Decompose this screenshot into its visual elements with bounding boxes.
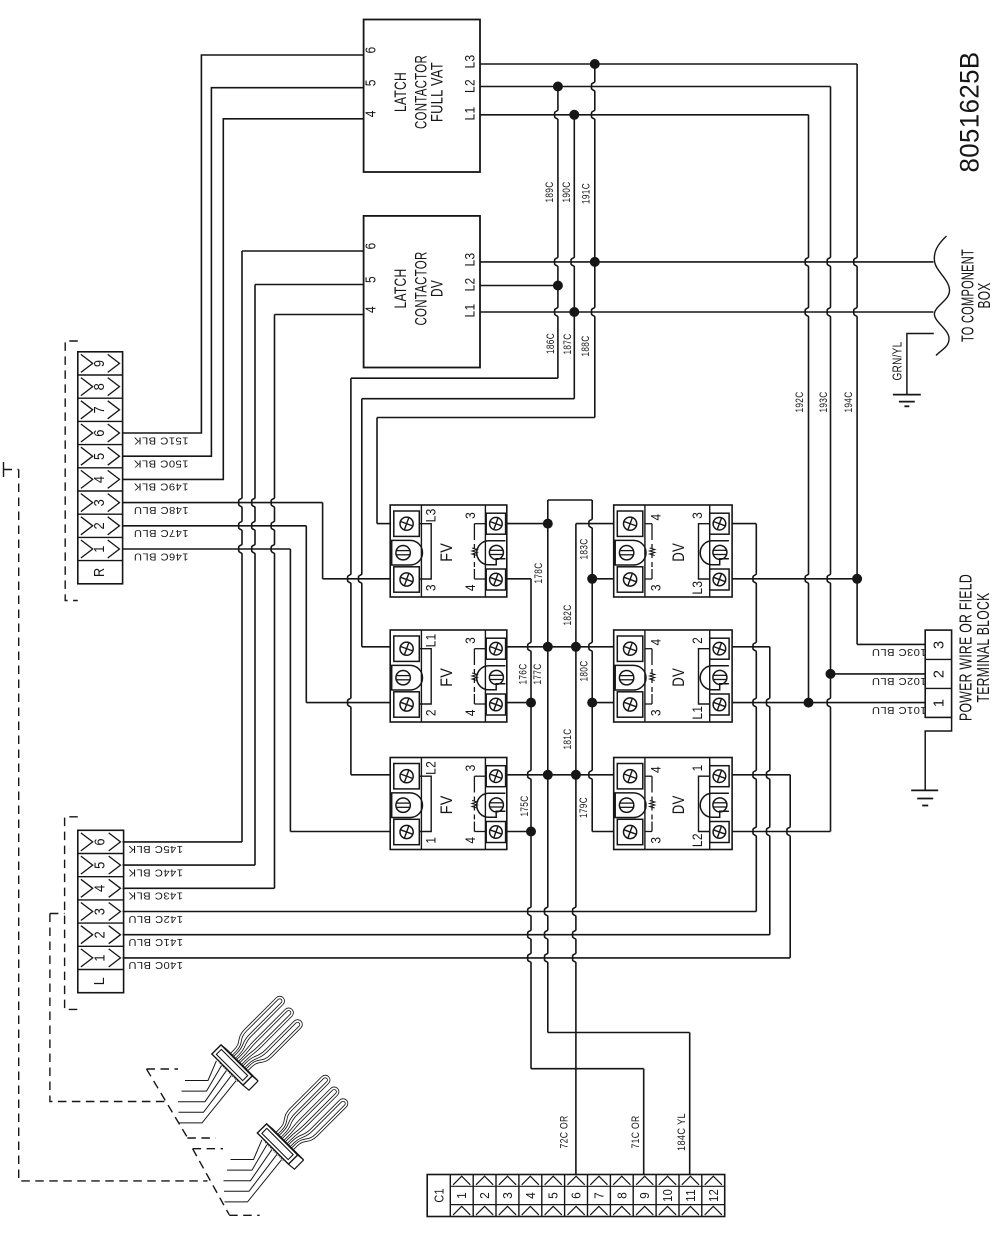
latch contactor FULL VAT K1 <box>364 20 481 173</box>
wire 144C BLK: L-5 to DV pin 5 <box>255 284 364 286</box>
wire FV2-4 row <box>507 702 531 704</box>
svg-text:3: 3 <box>463 764 478 771</box>
wire 183C/180C/179C: DV 3-terminal chain <box>589 500 592 832</box>
svg-text:TERMINAL BLOCK: TERMINAL BLOCK <box>973 593 993 703</box>
svg-text:4: 4 <box>92 476 108 484</box>
svg-text:8: 8 <box>92 383 108 391</box>
svg-text:2: 2 <box>477 1192 492 1199</box>
wire 150C BLK: R-5 to FULL VAT pin 5 <box>123 88 364 457</box>
svg-text:6: 6 <box>364 47 380 54</box>
svg-text:4: 4 <box>364 110 380 117</box>
ground at power terminal block <box>925 717 951 790</box>
wire 189C/186C: FULL VAT L2 - DV L2 - wrap to FV3 L2 <box>555 87 558 379</box>
svg-text:187C: 187C <box>562 334 574 355</box>
wire L1 bus top <box>480 114 809 116</box>
svg-text:4: 4 <box>463 709 478 716</box>
wire 191C/188C: FULL VAT L3 - DV L3 - wrap to FV1 L3 <box>592 64 595 418</box>
svg-text:9: 9 <box>637 1192 652 1199</box>
svg-text:176C: 176C <box>518 664 530 685</box>
wire 194C: L3 top elbow down to 103C <box>854 64 857 644</box>
svg-text:L3: L3 <box>424 508 439 522</box>
svg-text:L3: L3 <box>462 253 478 267</box>
svg-text:8: 8 <box>614 1192 629 1199</box>
svg-text:71C OR: 71C OR <box>630 1116 642 1149</box>
svg-text:GRN/YL: GRN/YL <box>890 342 904 381</box>
wire 102C BLU <box>831 673 926 675</box>
svg-text:194C: 194C <box>843 392 855 413</box>
wire 151C BLK: R-6 to FULL VAT pin 6 <box>123 55 364 433</box>
heating element HTR2 (R vat) <box>256 1070 357 1171</box>
svg-text:3: 3 <box>93 908 109 916</box>
wire 143C BLK: L-4 to DV pin 4 <box>275 314 364 316</box>
svg-text:183C: 183C <box>579 539 591 560</box>
svg-text:188C: 188C <box>580 336 592 357</box>
svg-text:3: 3 <box>930 641 947 650</box>
svg-text:178C: 178C <box>533 563 545 584</box>
top link FV1-3 to DV1-3 <box>548 499 592 501</box>
svg-text:DV: DV <box>670 668 688 687</box>
svg-text:4: 4 <box>93 885 109 893</box>
wire FV3-4 row <box>507 831 531 833</box>
svg-text:3: 3 <box>463 637 478 644</box>
svg-text:5: 5 <box>92 452 108 460</box>
wire 192C: L1 top elbow down to 101C <box>805 115 808 703</box>
wire FV3-3 row <box>507 774 576 776</box>
wire L3 bus top: FULL VAT L3 to right elbow <box>480 63 857 65</box>
svg-text:101C BLU: 101C BLU <box>872 704 927 716</box>
svg-text:2: 2 <box>424 709 439 716</box>
svg-text:145C BLK: 145C BLK <box>128 843 183 855</box>
svg-text:L1: L1 <box>462 107 478 121</box>
wire L2 bus top <box>480 86 831 88</box>
svg-text:2: 2 <box>690 637 705 644</box>
svg-text:BOX: BOX <box>974 283 994 309</box>
svg-text:9: 9 <box>92 360 108 368</box>
svg-text:189C: 189C <box>544 182 556 203</box>
wire 182C/181C/72C OR: DV1-4 chain down to C1-6 <box>576 523 614 525</box>
wire 146C BLU: R-1 to FV3-1 <box>123 548 291 550</box>
svg-text:3: 3 <box>690 512 705 519</box>
svg-text:L2: L2 <box>462 278 478 292</box>
svg-text:L: L <box>92 977 108 986</box>
svg-text:147C BLU: 147C BLU <box>134 527 189 539</box>
dashed enclosure around L block <box>65 817 78 1010</box>
wire DV2-4 feed <box>576 646 614 648</box>
svg-text:141C BLU: 141C BLU <box>128 936 183 948</box>
svg-text:DV: DV <box>670 543 688 562</box>
svg-text:4: 4 <box>463 837 478 844</box>
svg-text:191C: 191C <box>581 183 593 204</box>
svg-text:175C: 175C <box>519 796 531 817</box>
svg-text:179C: 179C <box>578 797 590 818</box>
svg-text:10: 10 <box>660 1189 675 1202</box>
svg-text:12: 12 <box>706 1189 721 1202</box>
dashed enclosure around R block <box>65 341 78 601</box>
wire DV L3 row to component box <box>480 261 934 263</box>
svg-text:1: 1 <box>424 837 439 844</box>
svg-text:4: 4 <box>523 1192 538 1199</box>
svg-text:190C: 190C <box>561 182 573 203</box>
svg-text:6: 6 <box>92 429 108 437</box>
svg-text:182C: 182C <box>562 605 574 626</box>
svg-text:3: 3 <box>92 499 108 507</box>
svg-text:3: 3 <box>649 709 664 716</box>
terminal strip C1 <box>427 1175 725 1217</box>
svg-text:7: 7 <box>92 406 108 414</box>
svg-text:L2: L2 <box>462 79 478 93</box>
wire DV L2 row <box>480 285 558 287</box>
dashed cable run to R vat probes <box>3 462 5 477</box>
wire DV L1 row to component box <box>480 311 934 313</box>
dashed cable run to L vat probes <box>50 913 65 915</box>
svg-text:FV: FV <box>438 795 456 814</box>
svg-text:L3: L3 <box>690 581 705 595</box>
svg-text:6: 6 <box>93 838 109 846</box>
dashed vat wall at heater 1 <box>147 1068 179 1070</box>
svg-text:3: 3 <box>463 512 478 519</box>
wire 178C/177C/184C YL: FV 3-terminal chain down to C1-11 <box>545 500 548 1033</box>
wire DV3-1 drop to heater row 140C <box>732 774 790 776</box>
wire 176C/175C/71C OR: FV 4-terminal chain down to C1-9 <box>528 579 531 1069</box>
wire 149C BLK: R-4 to FULL VAT pin 4 <box>123 119 364 480</box>
svg-text:4: 4 <box>649 766 664 773</box>
svg-text:4: 4 <box>463 584 478 591</box>
svg-text:5: 5 <box>364 276 380 283</box>
wire 101C BLU: DV2 L1 to terminal 1 <box>732 702 925 704</box>
latch contactor DV K2 <box>364 216 481 368</box>
solid-state relay DV3 <box>614 758 732 850</box>
svg-text:4: 4 <box>649 638 664 645</box>
wire 145C BLK: L-6 to DV pin 6 <box>242 250 364 252</box>
svg-text:1: 1 <box>92 545 108 553</box>
svg-text:184C YL: 184C YL <box>676 1113 688 1151</box>
solid-state relay DV2 <box>614 630 732 722</box>
svg-text:150C BLK: 150C BLK <box>134 458 189 470</box>
svg-text:5: 5 <box>93 861 109 869</box>
svg-text:1: 1 <box>930 699 947 708</box>
solid-state relay FV1 <box>390 505 507 597</box>
terminal block L (left vat) <box>78 830 124 992</box>
svg-text:149C BLK: 149C BLK <box>134 481 189 493</box>
svg-text:C1: C1 <box>431 1188 446 1203</box>
svg-text:L2: L2 <box>690 833 705 847</box>
svg-text:146C BLU: 146C BLU <box>134 550 189 562</box>
svg-text:LATCH: LATCH <box>391 72 410 112</box>
svg-text:L1: L1 <box>424 633 439 647</box>
svg-text:186C: 186C <box>545 333 557 354</box>
svg-text:2: 2 <box>930 670 947 679</box>
svg-text:FV: FV <box>438 668 456 687</box>
svg-text:FULL VAT: FULL VAT <box>428 62 447 122</box>
dashed vat wall at heater 2 <box>193 1148 223 1150</box>
wire 148C BLU: R-3 to FV1-3 <box>123 502 323 504</box>
svg-text:151C BLK: 151C BLK <box>134 434 189 446</box>
wire DV1 L3 row to 194C junction <box>732 578 857 580</box>
svg-text:4: 4 <box>364 306 380 313</box>
svg-text:3: 3 <box>424 584 439 591</box>
solid-state relay DV1 <box>614 505 732 597</box>
svg-text:180C: 180C <box>579 661 591 682</box>
svg-text:3: 3 <box>500 1192 515 1199</box>
wire 147C BLU: R-2 to FV2-2 <box>123 525 307 527</box>
svg-text:1: 1 <box>690 764 705 771</box>
svg-text:L1: L1 <box>690 706 705 720</box>
svg-text:1: 1 <box>93 954 109 962</box>
svg-text:5: 5 <box>546 1192 561 1199</box>
component box break line <box>934 236 949 356</box>
wire DV3-4 feed <box>576 774 614 776</box>
svg-text:177C: 177C <box>532 664 544 685</box>
svg-text:R: R <box>92 567 108 577</box>
svg-text:L1: L1 <box>462 304 478 318</box>
svg-text:4: 4 <box>649 513 664 520</box>
svg-text:181C: 181C <box>562 729 574 750</box>
solid-state relay FV3 <box>390 758 507 850</box>
svg-text:102C BLU: 102C BLU <box>872 675 927 687</box>
svg-text:3: 3 <box>649 837 664 844</box>
svg-text:103C BLU: 103C BLU <box>872 646 927 658</box>
svg-text:144C BLK: 144C BLK <box>128 866 183 878</box>
ground GRN/YL <box>893 394 921 396</box>
svg-text:3: 3 <box>649 584 664 591</box>
wire DV3 L2 row to 193C <box>732 831 830 833</box>
terminal block R (right vat) <box>78 352 123 584</box>
solid-state relay FV2 <box>390 630 507 722</box>
wire DV2-2 drop to heater row 141C <box>732 646 770 648</box>
power wire or field terminal block <box>925 630 951 717</box>
svg-text:72C OR: 72C OR <box>559 1116 571 1149</box>
svg-text:143C BLK: 143C BLK <box>128 890 183 902</box>
svg-text:LATCH: LATCH <box>391 269 410 309</box>
wire 190C/187C: FULL VAT L1 - DV L1 - wrap to FV2 L1 <box>571 115 574 399</box>
svg-text:142C BLU: 142C BLU <box>128 913 183 925</box>
svg-text:1: 1 <box>454 1192 469 1199</box>
svg-text:5: 5 <box>364 79 380 86</box>
wire GRN/YL ground lead <box>907 334 934 395</box>
svg-text:6: 6 <box>364 243 380 250</box>
svg-text:DV: DV <box>428 280 447 297</box>
wire DV1-3 drop to heater row 142C <box>732 523 756 525</box>
wire 103C BLU <box>857 643 925 645</box>
svg-text:FV: FV <box>438 543 456 562</box>
svg-text:DV: DV <box>670 795 688 814</box>
svg-text:192C: 192C <box>794 392 806 413</box>
svg-text:7: 7 <box>591 1192 606 1199</box>
svg-text:6: 6 <box>569 1192 584 1199</box>
svg-text:11: 11 <box>683 1189 698 1202</box>
wire FV2-3 row <box>507 646 576 648</box>
svg-text:148C BLU: 148C BLU <box>134 504 189 516</box>
svg-text:L3: L3 <box>462 55 478 69</box>
svg-text:8051625B: 8051625B <box>955 52 985 173</box>
svg-text:193C: 193C <box>818 392 830 413</box>
svg-text:2: 2 <box>92 522 108 530</box>
svg-text:L2: L2 <box>424 761 439 775</box>
heating element HTR1 (L vat) <box>211 991 312 1092</box>
wire 193C: L2 top elbow down to 102C and DV3 L2 <box>827 87 830 832</box>
svg-text:2: 2 <box>93 931 109 939</box>
svg-text:140C BLU: 140C BLU <box>128 959 183 971</box>
